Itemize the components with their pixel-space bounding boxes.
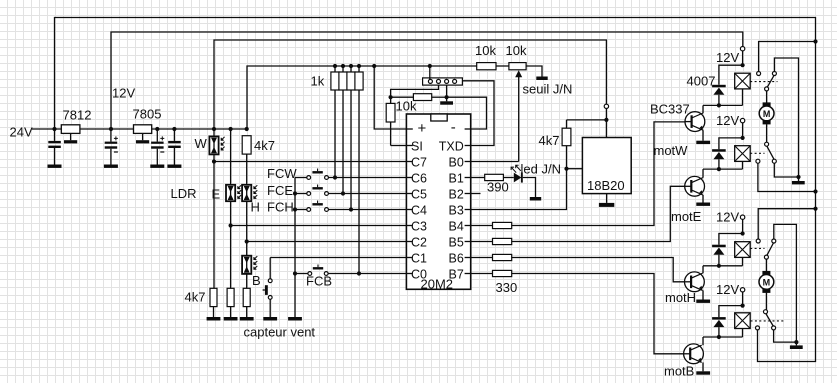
ground 7812 [64,133,77,143]
svg-text:12V: 12V [716,50,739,65]
wire collector node motE [703,169,743,178]
svg-text:330: 330 [496,280,518,295]
photoresistor E [212,129,242,288]
svg-text:7805: 7805 [133,107,162,122]
svg-text:C1: C1 [411,251,427,265]
resistor 330 B7 [471,270,512,276]
wire 5V rail to 18B20 [214,40,606,129]
relay coil motH [735,242,751,266]
ground emitter motH [696,290,710,303]
svg-text:M: M [763,277,771,287]
svg-text:20M2: 20M2 [421,277,454,292]
ground input cap [48,165,62,168]
svg-text:LDR: LDR [171,186,197,201]
ground contacts WE [792,177,805,184]
resistor network 1k x4 [311,64,364,90]
wire C6 row [328,175,406,179]
photoresistor B [242,256,261,289]
svg-text:seuil J/N: seuil J/N [523,82,573,97]
ground 5V cap2 [167,165,181,168]
capacitor 5V electrolytic [151,127,164,165]
ground emitter motW [696,130,710,144]
svg-text:B6: B6 [449,251,464,265]
label LDR [171,186,197,201]
relay contact B moving [764,310,774,326]
relay contact H lever [764,243,773,259]
svg-text:10k: 10k [396,99,417,114]
wire TXD link [462,81,494,146]
svg-text:C6: C6 [411,171,427,185]
label capteur vent [244,325,316,340]
potentiometer 10k seuil J/N [506,43,527,162]
svg-text:FCH: FCH [267,200,294,215]
wire 5V pull-up rail [247,64,477,129]
svg-text:B3: B3 [449,203,464,217]
ground LED [530,197,541,201]
node 12V motB [716,282,745,305]
wire 5V output [152,128,214,130]
wire 1k to FCW [334,90,336,178]
svg-text:4007: 4007 [687,74,716,89]
svg-text:-: - [451,119,456,136]
wire 1k to FCB [358,90,360,274]
switch FCH [267,200,328,215]
sensor 18B20 [567,138,632,194]
svg-text:24V: 24V [10,125,33,140]
pin B2 stub [471,193,481,195]
svg-text:C2: C2 [411,235,427,249]
capacitor 12V electrolytic [105,129,118,165]
wire switch common to ground [288,178,302,321]
wire LED to ground [523,178,536,198]
relay coil motW [735,73,751,105]
svg-text:C5: C5 [411,187,427,201]
svg-text:12V: 12V [716,210,739,225]
svg-text:motE: motE [671,209,702,224]
ground 7805 [136,133,149,143]
label 330 [496,280,518,295]
wire connector pin2 to 10k [391,85,439,97]
capacitor 5V ceramic [168,127,181,165]
svg-text:motB: motB [664,364,694,379]
transistor motB [664,344,703,379]
wire C7 row [214,161,406,163]
ground seuil [526,66,548,80]
ground connector [440,97,453,105]
switch FCE [267,183,328,198]
ground capteur vent [263,317,277,321]
svg-text:W: W [195,136,208,151]
svg-text:4k7: 4k7 [539,133,560,148]
resistor 330 B4 [471,222,512,228]
svg-text:capteur vent: capteur vent [244,325,316,340]
ground contacts HB [790,342,803,349]
wire C3 row [231,225,407,227]
svg-text:B1: B1 [449,171,464,185]
op-amp U1 PICAXE 20M2 [406,114,470,292]
switch capteur vent [263,258,273,318]
svg-text:12V: 12V [112,86,135,101]
resistor 4k7 bottom W [185,288,221,320]
wire SI row [391,145,407,147]
svg-text:1k: 1k [311,74,325,89]
svg-text:12V: 12V [716,282,739,297]
svg-text:4k7: 4k7 [185,290,206,305]
svg-text:led J/N: led J/N [521,162,561,177]
photoresistor H [242,185,260,256]
wire B3 row [471,167,569,210]
wire B0 row [471,161,519,163]
relay contact B fixed-NC [756,326,760,330]
svg-text:E: E [212,187,221,202]
switch FCB [295,265,332,289]
link dotted E [750,152,764,154]
switch FCW [267,166,328,181]
ground emitter motB [696,362,710,374]
resistor 4k7 bottom E [224,288,238,320]
svg-text:12V: 12V [716,113,739,128]
wire chip V- to ground [447,97,487,129]
connector programming jack [423,66,463,85]
wire B5 to motE base [512,186,685,241]
wire C1 row [270,257,406,259]
relay coil motB [735,313,751,337]
resistor 10k serial-in [386,97,417,145]
svg-text:motW: motW [654,143,689,158]
link dotted H [750,247,764,249]
svg-text:motH: motH [665,290,696,305]
wire 4k7 to 5V riser [567,118,609,122]
led J/N LED [511,162,561,183]
ground 12V cap [104,165,118,168]
svg-text:10k: 10k [506,43,527,58]
transistor motH [665,272,704,305]
svg-text:B2: B2 [449,187,464,201]
svg-text:C7: C7 [411,155,427,169]
wire collector node motW [703,105,743,113]
relay contact B fixed-NO [772,326,799,344]
resistor 4k7 18B20 pull-up [539,120,571,169]
svg-text:BC337: BC337 [650,102,690,117]
ground 5V cap1 [150,165,164,168]
link dotted B [751,320,784,322]
wire C4 row [328,207,406,211]
photoresistor W [195,129,225,288]
svg-text:7812: 7812 [63,108,92,123]
wire 5V to sensors [212,127,249,131]
relay contact E fixed-NO [772,159,800,179]
relay contact W lever [765,75,774,91]
svg-text:B0: B0 [449,155,464,169]
node 24V input [10,125,62,140]
wire 7812 to 7805 [80,128,134,130]
relay contact E moving [765,142,774,159]
wire chip V+ [374,66,406,129]
wire collector node motH [703,266,743,273]
resistor 330 B5 [471,238,512,244]
transistor motE [671,176,704,224]
wire C5 row [328,191,406,195]
relay contact H fixed-NC [756,209,815,243]
diode 1N4007 motE [712,136,745,171]
motor M1 [759,91,774,142]
diode 1N4007 motB [712,304,745,340]
svg-text:SI: SI [411,139,423,153]
svg-text:FCE: FCE [267,183,293,198]
wire B6 to motH base [512,258,685,282]
svg-text:B: B [252,273,261,288]
wire B7 to motB base [512,274,684,354]
label 4007 [687,74,716,89]
node 12V [109,86,136,132]
wire C2 row [247,241,407,243]
label BC337 [650,102,690,117]
svg-text:4k7: 4k7 [254,138,275,153]
resistor 10k seuil [475,43,509,70]
ground 18B20 [599,194,614,207]
svg-text:M: M [763,109,771,119]
svg-text:TXD: TXD [439,139,464,153]
wire connector pin3 to ground node [445,85,449,99]
regulator 7805 [133,107,162,134]
diode 1N4007 motH [712,231,745,268]
svg-text:C3: C3 [411,219,427,233]
svg-text:+: + [418,120,427,137]
wire 1k to FCE [342,90,344,194]
wire collector node motB [703,337,743,345]
relay contact H fixed-NO [772,224,797,342]
wire 12V rail [111,32,743,129]
wire B4 to motW base [512,122,685,226]
transistor motW [654,112,705,158]
node 12V motH [716,210,745,234]
svg-text:18B20: 18B20 [587,178,625,193]
resistor 390 [485,174,514,194]
diode 1N4007 motW [712,63,745,107]
relay contact W fixed-NC [757,42,816,76]
relay contact W fixed-NO [772,58,798,177]
motor M2 [759,259,774,310]
svg-text:FCW: FCW [267,166,297,181]
wire 1k to FCH [350,90,352,210]
resistor 10k to ground [389,94,447,101]
capacitor input 24V [48,127,61,165]
resistor 4k7 top [242,136,275,185]
node 18B20 connector [604,104,608,137]
wire C0 row [328,271,406,275]
node 12V motW [716,47,745,66]
svg-text:B5: B5 [449,235,464,249]
wire B1 row [471,177,485,179]
relay contact E fixed-NC [756,159,816,191]
svg-text:10k: 10k [475,43,496,58]
label seuil J/N [523,82,573,97]
svg-text:390: 390 [487,180,509,195]
resistor 330 B6 [471,254,512,260]
svg-text:C4: C4 [411,203,427,217]
node 12V motE [716,113,745,138]
relay coil motE [735,146,751,169]
ground emitter motE [696,195,710,206]
regulator 7812 [61,108,91,134]
link dotted W [750,81,777,83]
svg-text:B4: B4 [449,219,464,233]
resistor 4k7 bottom B [240,288,254,320]
